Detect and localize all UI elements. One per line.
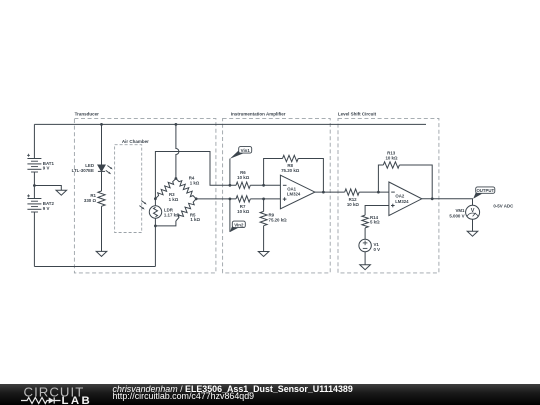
- label 0-5V ADC: [493, 204, 514, 209]
- svg-text:LM324: LM324: [395, 199, 409, 204]
- LED D1 LTL-307EE: [72, 163, 113, 175]
- battery BAT2: [27, 194, 54, 212]
- Instrumentation Amplifier label: [231, 111, 286, 116]
- wire LED branch upper: [101, 124, 103, 165]
- svg-text:75.20 kΩ: 75.20 kΩ: [281, 168, 300, 173]
- svg-text:Level Shift Circuit: Level Shift Circuit: [338, 111, 377, 116]
- ground (VM1): [467, 231, 478, 236]
- svg-text:10 kΩ: 10 kΩ: [385, 156, 398, 161]
- node Vin1 tap: [229, 184, 232, 187]
- svg-text:9 V: 9 V: [43, 166, 50, 171]
- wire R8 to output node: [298, 159, 323, 193]
- wire R14 to V1: [364, 228, 366, 239]
- svg-text:OUTPUT: OUTPUT: [476, 188, 494, 193]
- Air Chamber label: [122, 139, 149, 144]
- svg-text:Vin1: Vin1: [241, 148, 251, 153]
- node mid battery junction: [33, 184, 36, 187]
- wire OA2 non-inverting branch: [365, 206, 389, 216]
- wire between BAT1 and BAT2: [33, 172, 35, 199]
- node top rail / bridge branch: [175, 123, 178, 126]
- svg-text:0 V: 0 V: [374, 247, 381, 252]
- node bridge bottom-left junction: [154, 225, 157, 228]
- ground (V1): [360, 265, 371, 270]
- node OA1 output junction: [322, 191, 325, 194]
- wire bridge left node to inverting row: [155, 152, 236, 199]
- wire bridge to bottom rail: [154, 226, 156, 267]
- wire bridge supply with hop: [176, 124, 179, 178]
- wire left rail upper: [33, 124, 35, 158]
- svg-text:OA2: OA2: [395, 194, 404, 199]
- ground (battery midpoint): [56, 190, 67, 195]
- resistor R8 75.20k: [281, 155, 300, 173]
- wire R9 branch: [263, 199, 265, 212]
- svg-text:LM324: LM324: [287, 192, 301, 197]
- svg-text:LAB: LAB: [62, 395, 93, 405]
- wire R12 to OA2 inverting input: [359, 191, 389, 193]
- photoresistor LDR 1.17k: [139, 199, 180, 226]
- Transducer enclosure box: [74, 118, 216, 273]
- svg-text:5.000 V: 5.000 V: [449, 213, 464, 218]
- svg-text:Air Chamber: Air Chamber: [122, 139, 149, 144]
- node non-inverting input junction: [262, 198, 265, 201]
- wire feedback R8 branch: [264, 159, 283, 186]
- wire V1 to ground: [364, 252, 366, 265]
- wire OA2 output to voltmeter: [422, 199, 473, 206]
- voltmeter VM1: [449, 205, 479, 219]
- node bridge left vertex: [154, 197, 157, 200]
- battery BAT1: [27, 154, 54, 172]
- resistor R6 10k: [236, 170, 250, 189]
- ground (R9): [258, 252, 269, 257]
- resistor R14 5k: [362, 215, 380, 228]
- node Vin2 flag: [230, 221, 246, 232]
- wire R13 feedback left leg: [378, 165, 383, 192]
- wire top supply rail: [34, 123, 426, 125]
- resistor R9 75.20k: [260, 211, 287, 225]
- resistor R7 10k: [236, 196, 250, 215]
- wire LED to R1: [101, 171, 103, 191]
- ground (LED branch): [96, 251, 107, 256]
- svg-text:Instrumentation Amplifier: Instrumentation Amplifier: [231, 111, 286, 116]
- svg-text:1 kΩ: 1 kΩ: [190, 217, 200, 222]
- resistor R12 10k: [345, 189, 360, 207]
- resistor R1 330: [84, 191, 105, 206]
- Level Shift Circuit label: [338, 111, 377, 116]
- wire Vin1 stem: [229, 159, 231, 186]
- svg-text:1 kΩ: 1 kΩ: [169, 197, 179, 202]
- wire left rail lower: [33, 212, 35, 267]
- op-amp OA2 LM324: [389, 182, 422, 216]
- svg-text:10 kΩ: 10 kΩ: [347, 202, 360, 207]
- footer title text: [113, 386, 353, 401]
- wire VM1 to ground: [472, 219, 474, 231]
- node R13 feedback junction: [377, 191, 380, 194]
- svg-text:9 V: 9 V: [43, 206, 50, 211]
- Level Shift Circuit enclosure box: [338, 118, 439, 273]
- wire R9 to ground: [263, 226, 265, 252]
- Air Chamber enclosure box: [115, 145, 142, 233]
- wire OA1 output row: [315, 191, 345, 193]
- svg-text:75.20 kΩ: 75.20 kΩ: [269, 217, 288, 222]
- Transducer label: [75, 112, 100, 117]
- svg-text:Vin2: Vin2: [234, 222, 244, 227]
- node OUTPUT flag: [473, 187, 495, 199]
- voltage source V1 0V: [359, 239, 380, 252]
- resistor R4 1k: [176, 176, 200, 199]
- svg-text:1 kΩ: 1 kΩ: [190, 181, 200, 186]
- wire R1 to ground: [101, 206, 103, 251]
- resistor R5 1k: [176, 199, 201, 222]
- svg-text:5 kΩ: 5 kΩ: [370, 220, 380, 225]
- wire bridge bottom vertex link: [155, 221, 176, 226]
- wire R13 to output node: [399, 165, 432, 199]
- svg-text:LTL-307EE: LTL-307EE: [72, 168, 94, 173]
- wire bottom rail: [34, 266, 155, 268]
- svg-text:OA1: OA1: [287, 186, 296, 191]
- wire bridge right node to non-inverting row: [196, 198, 236, 200]
- wire Vin2 stem: [229, 199, 231, 232]
- resistor R3 1k: [155, 179, 178, 202]
- op-amp OA1 LM324: [280, 175, 315, 209]
- node Vin2 tap: [229, 198, 232, 201]
- svg-text:0-5V ADC: 0-5V ADC: [493, 204, 514, 209]
- node bridge right vertex: [195, 197, 198, 200]
- wire to mid ground: [34, 186, 61, 191]
- node top rail / LED branch: [100, 123, 103, 126]
- node Vin1 flag: [230, 147, 252, 159]
- resistor R13 10k: [383, 151, 399, 169]
- Instrumentation Amplifier enclosure box: [223, 118, 331, 273]
- svg-text:10 kΩ: 10 kΩ: [237, 209, 250, 214]
- node inverting input junction: [262, 184, 265, 187]
- wire R6 to OA1 inverting input: [250, 184, 280, 186]
- svg-text:330 Ω: 330 Ω: [84, 198, 97, 203]
- svg-text:10 kΩ: 10 kΩ: [237, 175, 250, 180]
- node OA2 output junction: [431, 197, 434, 200]
- node bridge top vertex: [175, 177, 178, 180]
- svg-text:1.17 kΩ: 1.17 kΩ: [164, 213, 180, 218]
- CircuitLab logo: [0, 384, 110, 405]
- svg-text:Transducer: Transducer: [75, 112, 100, 117]
- wire R7 to OA1 non-inverting input: [250, 198, 280, 200]
